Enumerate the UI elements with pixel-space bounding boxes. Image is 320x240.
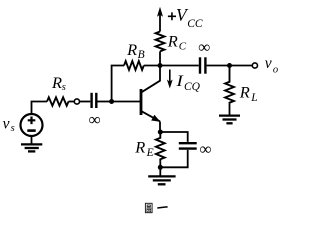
svg-text:R: R: [167, 34, 179, 51]
label vo: [265, 55, 278, 75]
transistor Q1: [141, 66, 160, 133]
wire RL node to vo terminal: [230, 65, 253, 67]
svg-text:∞: ∞: [198, 38, 210, 57]
capacitor C2: [200, 57, 205, 73]
label vs: [3, 115, 15, 134]
wire C2 to RL node: [207, 65, 230, 67]
ground below vs: [21, 136, 42, 151]
wire RL to ground: [229, 104, 231, 115]
resistor RC: [156, 32, 165, 52]
wire vs top to input line: [32, 102, 48, 115]
node vo terminal: [252, 63, 257, 68]
ground below RE: [148, 167, 175, 184]
collector lead: [141, 66, 160, 93]
supply +VCC arrow: [157, 7, 163, 32]
svg-text:s: s: [11, 123, 15, 134]
svg-text:∞: ∞: [88, 110, 100, 129]
svg-text:E: E: [146, 147, 154, 159]
svg-text:C: C: [179, 40, 187, 52]
voltage source vs: [21, 114, 43, 136]
node RL junction: [227, 63, 232, 68]
svg-text:v: v: [265, 55, 272, 72]
wire bypass branch bottom: [160, 150, 187, 167]
wire terminal to C1: [80, 101, 91, 103]
svg-text:L: L: [250, 92, 257, 104]
capacitor CE: [179, 143, 197, 148]
wire RB to collector node: [144, 65, 160, 67]
caption glyph 一 (one): [157, 207, 167, 208]
wire bypass branch top: [160, 132, 187, 142]
ground below RL: [219, 116, 240, 124]
label ICQ: [175, 73, 200, 93]
caption glyph 圖 (Figure): [145, 203, 152, 212]
resistor RL: [225, 66, 234, 104]
emitter wire down: [159, 122, 161, 133]
label Rs: [51, 75, 66, 93]
svg-text:CQ: CQ: [184, 81, 201, 93]
label RE: [134, 139, 153, 159]
label +VCC: [168, 5, 203, 30]
label RL: [239, 85, 258, 104]
wire RE bottom to ground node: [159, 161, 161, 167]
resistor Rs: [47, 97, 69, 105]
wire collector node to C2: [160, 65, 199, 67]
svg-text:R: R: [239, 85, 251, 102]
wire base node to transistor base: [112, 101, 140, 103]
open terminal node: [74, 99, 79, 104]
svg-text:I: I: [175, 73, 184, 90]
node base junction: [109, 99, 114, 104]
wire Rs to terminal: [69, 101, 75, 103]
svg-text:R: R: [134, 139, 146, 156]
svg-text:s: s: [62, 82, 66, 93]
resistor RE: [156, 132, 165, 161]
capacitor C1: [92, 93, 97, 108]
label RC: [167, 34, 187, 53]
wire RC to collector node: [159, 51, 161, 65]
svg-text:v: v: [3, 115, 10, 132]
emitter lead: [141, 111, 160, 121]
svg-text:o: o: [273, 64, 278, 75]
node collector junction: [158, 63, 163, 68]
node emitter ground junction: [158, 165, 163, 170]
node emitter junction: [158, 130, 163, 135]
svg-text:R: R: [126, 42, 138, 59]
wire C1 to base node: [98, 101, 112, 103]
emitter arrowhead: [151, 115, 160, 122]
svg-text:∞: ∞: [199, 139, 211, 158]
current ICQ arrow: [167, 70, 173, 89]
label RB: [126, 42, 144, 61]
resistor RB: [124, 61, 144, 70]
svg-text:CC: CC: [187, 18, 203, 30]
wire base node up to RB: [112, 66, 124, 102]
svg-text:B: B: [138, 49, 145, 61]
base bar: [140, 89, 143, 115]
